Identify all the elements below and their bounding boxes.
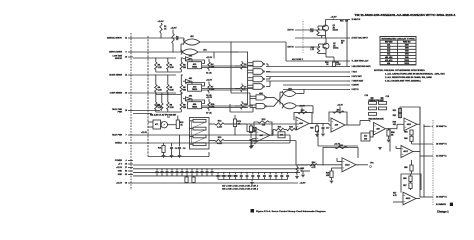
wire output	[356, 164, 368, 166]
wire	[250, 124, 252, 126]
wire	[160, 33, 162, 38]
wire	[371, 99, 373, 102]
resistor R1 1K pull-up	[160, 23, 162, 33]
wire SERVO DRIVE	[133, 51, 182, 53]
wire	[296, 127, 298, 130]
wire AT EXT OSC	[295, 37, 347, 39]
wire cap C20 lead	[201, 169, 203, 171]
wire	[177, 116, 179, 121]
wire	[432, 125, 434, 127]
wire	[269, 71, 271, 74]
ground	[295, 177, 299, 179]
wire	[148, 126, 153, 128]
svg-text:T DRIVE XMIT: T DRIVE XMIT	[352, 81, 365, 83]
wire	[309, 123, 314, 125]
svg-text:4A13: 4A13	[406, 197, 410, 200]
pin tick	[128, 51, 133, 53]
wire	[269, 77, 271, 80]
wire gate input	[248, 62, 253, 64]
svg-text:74123: 74123	[404, 62, 409, 65]
wire PWR	[133, 113, 152, 115]
wire base	[318, 25, 323, 27]
wire	[279, 92, 281, 104]
wire cap C19 lead	[229, 172, 231, 174]
wire ladder output A	[209, 123, 215, 125]
label R6	[183, 87, 186, 91]
capacitor C15	[381, 98, 384, 99]
ground	[170, 156, 174, 158]
pin tick	[128, 142, 133, 144]
wire	[208, 82, 210, 85]
wire	[325, 54, 327, 58]
junction	[247, 51, 248, 52]
wire	[148, 156, 209, 158]
pin tick	[128, 163, 133, 165]
table row 4B1, 4B2	[380, 56, 416, 59]
one-shot IC 4C2	[188, 84, 202, 91]
wire cap C25 lead	[263, 172, 265, 174]
input pin label MANUAL SERVO	[107, 37, 127, 40]
capacitor C19	[228, 175, 231, 176]
op-amp 4A8	[296, 117, 309, 130]
nand gate 4A3	[253, 76, 264, 82]
ground	[315, 135, 319, 137]
wire	[316, 132, 318, 134]
notes text	[374, 70, 446, 83]
wire	[250, 141, 252, 146]
resistor cluster R33	[369, 107, 377, 110]
ground floating	[378, 148, 382, 150]
pin tick	[347, 60, 350, 62]
svg-text:2.2K: 2.2K	[170, 107, 175, 109]
svg-text:GND: GND	[118, 174, 123, 176]
wire	[389, 146, 391, 152]
wire MODE SENSE	[133, 74, 176, 76]
wire cap C28 lead	[281, 172, 283, 174]
wire	[273, 129, 275, 131]
resistor R37	[370, 131, 373, 137]
wire	[411, 171, 413, 174]
label R5	[170, 87, 175, 91]
svg-text:ADJ CONF 1: ADJ CONF 1	[292, 58, 303, 61]
power pin label TACH PWR	[112, 134, 126, 137]
wire	[181, 92, 183, 94]
svg-text:C18 .1 C20 .1 C22 .1 C24: C18 .1 C20 .1 C22 .1 C24 .1 C26 .1 C28 .…	[222, 187, 258, 190]
wire	[156, 173, 158, 176]
svg-text:7402: 7402	[405, 50, 409, 53]
resistor R8	[167, 102, 169, 110]
nand gate 4A4-1	[256, 95, 266, 100]
label 4D1	[192, 103, 197, 109]
wire	[213, 52, 215, 58]
power bus wire	[133, 171, 300, 173]
label C10	[244, 104, 248, 108]
svg-text:4A4: 4A4	[387, 53, 390, 56]
wire	[229, 104, 231, 112]
wire	[317, 164, 342, 166]
input pin label TACH PWR	[112, 108, 127, 113]
wire	[180, 44, 182, 52]
wire	[386, 128, 397, 130]
wire	[411, 135, 413, 136]
wire cap C15 lead	[176, 169, 178, 171]
svg-text:R51: R51	[393, 110, 396, 112]
resistor R9	[180, 102, 182, 110]
wire	[190, 128, 194, 130]
ground	[330, 181, 334, 183]
op-amp 4A12	[401, 146, 413, 158]
svg-text:NOTES: UNLESS OTHERWISE SPEC: NOTES: UNLESS OTHERWISE SPECIFIED:	[374, 70, 426, 72]
wire	[321, 36, 323, 39]
wire	[167, 93, 169, 102]
resistor R34A	[333, 111, 344, 113]
wire	[191, 173, 193, 176]
label 4C1	[192, 63, 197, 69]
wire	[186, 173, 188, 176]
svg-text:MANUAL SERVO: MANUAL SERVO	[107, 37, 122, 40]
svg-text:2.2K: 2.2K	[170, 90, 175, 92]
ground	[250, 183, 254, 185]
label R7	[211, 87, 215, 91]
ground	[387, 140, 391, 142]
op-amp 4A7 feedback wire	[254, 122, 272, 135]
wire 20 MHZ	[326, 19, 348, 21]
capacitor C14	[371, 98, 374, 99]
svg-text:24 SHAFT B: 24 SHAFT B	[436, 196, 447, 199]
wire	[161, 93, 163, 103]
wire	[171, 173, 173, 176]
wire collector	[325, 20, 327, 26]
svg-text:SHIELD: SHIELD	[115, 143, 122, 145]
resistor R3	[180, 62, 182, 70]
svg-text:20 SHAFT A: 20 SHAFT A	[436, 125, 447, 128]
wire cap C23 lead	[252, 172, 254, 174]
resistor R7	[155, 102, 157, 110]
wire	[161, 173, 163, 176]
svg-text:R32: R32	[289, 126, 293, 128]
wire	[303, 90, 305, 94]
resistor R4	[155, 85, 157, 93]
bus vertical line	[147, 36, 149, 113]
resistor R10 10K	[208, 102, 210, 110]
wire	[190, 136, 192, 144]
resistor R33B	[315, 126, 318, 132]
svg-text:R25: R25	[218, 137, 222, 139]
wire	[272, 130, 274, 136]
wire	[416, 198, 420, 200]
wire stub	[231, 51, 238, 53]
label C7	[244, 87, 247, 91]
wire	[155, 58, 157, 62]
svg-text:C9: C9	[183, 148, 185, 150]
table column divider	[397, 40, 399, 65]
op-amp 4A10	[342, 158, 356, 172]
wire	[322, 129, 324, 133]
resistor R2 1K pull-up	[172, 34, 174, 44]
wire	[297, 105, 313, 107]
wire output T RCV	[266, 71, 347, 73]
wire	[181, 74, 183, 76]
capacitor C25	[263, 175, 266, 176]
wire cap C17 lead	[217, 172, 219, 174]
wire	[388, 136, 390, 139]
wire TACH PWR	[133, 110, 160, 112]
pin tick	[347, 19, 350, 21]
wire	[180, 70, 182, 73]
wire	[302, 171, 304, 174]
power pin label GND	[118, 174, 127, 176]
wire cap C20 lead	[234, 172, 236, 174]
resistor ladder outline	[190, 118, 210, 150]
svg-text:1. ALL CAPACITORS ARE IN MICRO: 1. ALL CAPACITORS ARE IN MICROFARADS, -1…	[385, 73, 446, 76]
nand gate 4A1	[253, 61, 264, 67]
wire	[410, 182, 412, 184]
IC table frame	[380, 37, 416, 66]
wire	[208, 109, 210, 111]
wire	[181, 43, 184, 45]
wire	[208, 69, 210, 71]
wire output	[424, 125, 431, 127]
ladder resistor R25	[193, 127, 206, 130]
label R8	[170, 105, 175, 109]
wire	[395, 146, 397, 149]
wire	[167, 110, 169, 113]
wire	[202, 107, 248, 109]
wire	[333, 66, 335, 68]
wire cap C19 lead	[196, 169, 198, 171]
label C4	[244, 63, 247, 68]
svg-text:4A7: 4A7	[260, 134, 263, 137]
wire	[251, 180, 253, 182]
wire gate input	[248, 72, 253, 74]
wire MANUAL SERVO	[133, 37, 184, 39]
wire cap C18 lead	[191, 169, 193, 171]
op-amp 4A13 feedback wire	[401, 174, 421, 193]
svg-text:27: 27	[125, 167, 127, 169]
svg-text:3. ALL DIODES ARE TYPE JAN1N91: 3. ALL DIODES ARE TYPE JAN1N914.	[385, 80, 422, 83]
wire	[287, 177, 289, 180]
pin tick	[128, 37, 133, 39]
svg-text:10: 10	[125, 57, 127, 59]
wire	[336, 158, 338, 162]
resistor R17 1.2K	[317, 28, 319, 36]
transformer T1 box	[153, 120, 161, 129]
wire	[246, 177, 248, 180]
wire	[411, 160, 413, 165]
capacitor C24	[257, 175, 260, 176]
wire	[224, 140, 296, 142]
wire	[388, 129, 390, 130]
svg-text:4Z1: 4Z1	[280, 135, 283, 137]
svg-text:R30: R30	[301, 110, 305, 112]
wire	[235, 88, 240, 90]
wire LOW TIME ERROR	[133, 57, 176, 59]
wire crossover	[267, 97, 283, 104]
wire	[252, 177, 254, 180]
wire box loop	[186, 100, 205, 104]
capacitor C10	[250, 140, 253, 141]
svg-text:T RCV: T RCV	[352, 72, 358, 74]
wire	[235, 105, 240, 107]
wire	[167, 75, 169, 85]
wire gate input	[248, 69, 253, 71]
capacitor C17	[322, 128, 325, 129]
ILLUMINATE black square	[450, 203, 453, 206]
svg-text:R29: R29	[262, 119, 266, 121]
svg-text:1.2K: 1.2K	[158, 90, 163, 92]
pin tick	[128, 167, 133, 169]
wire	[269, 177, 271, 180]
svg-text:4A2: 4A2	[387, 47, 390, 50]
wire	[269, 81, 271, 87]
wire	[208, 99, 210, 102]
svg-text:PWR: PWR	[118, 111, 123, 113]
wire	[316, 124, 318, 127]
wire	[191, 81, 193, 84]
wire	[413, 151, 420, 153]
svg-text:S DRIVE: S DRIVE	[352, 85, 360, 87]
input pin label SERVO DRIVE	[109, 52, 126, 54]
svg-text:74121: 74121	[192, 66, 197, 69]
capacitor C13	[166, 172, 169, 173]
svg-text:1-MILLISECOND GATE: 1-MILLISECOND GATE	[352, 65, 372, 68]
wire	[229, 177, 231, 180]
svg-text:+11.6V: +11.6V	[206, 80, 213, 82]
wire	[251, 139, 253, 145]
wire	[163, 143, 165, 146]
wire	[284, 129, 287, 131]
wire cap C18 lead	[223, 172, 225, 174]
resistor R32 10K	[287, 128, 296, 130]
wire	[163, 153, 165, 156]
resistor R6	[180, 85, 182, 93]
ladder resistor R27	[193, 143, 206, 146]
wire	[318, 35, 326, 37]
wire	[322, 124, 324, 127]
test point circle	[369, 165, 371, 167]
wire	[396, 124, 398, 128]
wire	[410, 174, 412, 176]
svg-text:4B1: 4B1	[190, 36, 193, 38]
wire	[190, 120, 194, 122]
wire	[166, 173, 168, 176]
capacitor C8	[170, 148, 173, 149]
op-amp 4A13	[403, 192, 416, 205]
resistor R21	[162, 146, 165, 153]
resistor R1	[155, 62, 157, 70]
wire	[180, 75, 182, 85]
wire output T DRIVE XMIT	[266, 80, 347, 82]
pin tick	[347, 71, 350, 73]
wire emitter	[325, 49, 327, 54]
wire cap C11 lead	[156, 169, 158, 171]
resistor R31 10K	[275, 128, 284, 130]
wire output S DRIVE	[283, 84, 347, 86]
wire	[180, 93, 182, 102]
wire crossover	[267, 95, 283, 106]
power bus wire	[133, 182, 298, 184]
table row 4A4	[380, 53, 416, 56]
resistor R4 10K	[208, 62, 210, 70]
wire cap C16 lead	[181, 169, 183, 171]
resistor cluster R35	[379, 107, 387, 110]
svg-text:Figure FO-4. Servo Control Gr: Figure FO-4. Servo Control Group Card Sc…	[256, 210, 327, 213]
svg-text:240: 240	[345, 21, 348, 23]
svg-text:TP3: TP3	[370, 163, 373, 165]
wire	[181, 173, 183, 176]
wire	[296, 164, 310, 166]
wire SHIELD	[133, 142, 290, 144]
wire	[249, 93, 251, 107]
resistor R39 100K	[335, 146, 347, 148]
svg-text:7400: 7400	[405, 47, 409, 50]
capacitor C26	[269, 175, 272, 176]
wire	[314, 123, 329, 125]
wire	[206, 173, 208, 176]
svg-text:C8: C8	[175, 148, 177, 150]
svg-text:4A8: 4A8	[299, 122, 302, 125]
pin tick	[347, 37, 350, 39]
wire	[230, 111, 253, 113]
svg-text:74121: 74121	[192, 106, 197, 109]
wire	[179, 149, 181, 155]
op-amp 4A11 feedback wire	[400, 107, 420, 124]
label R1	[158, 65, 163, 69]
capacitor C9	[178, 148, 181, 149]
svg-text:+11.6V: +11.6V	[141, 132, 148, 134]
svg-text:+11.5V: +11.5V	[116, 167, 123, 169]
resistor R53	[410, 130, 413, 135]
power bus wire	[133, 168, 303, 170]
wire	[224, 123, 247, 125]
wire	[193, 182, 195, 185]
wire	[161, 126, 162, 128]
capacitor C19	[196, 172, 199, 173]
svg-text:4A11: 4A11	[407, 123, 411, 126]
connector boundary dashed line	[130, 33, 132, 190]
svg-text:R57: R57	[403, 185, 406, 187]
label R9	[183, 105, 186, 109]
svg-text:4B2: 4B2	[288, 89, 291, 91]
caption black square	[251, 209, 255, 213]
svg-text:9: 9	[125, 52, 126, 54]
resistor cluster R33	[369, 113, 377, 116]
row ground rail	[156, 111, 182, 113]
svg-text:30: 30	[125, 171, 127, 173]
wire gate input	[248, 64, 253, 66]
wire cap C17 lead	[186, 169, 188, 171]
label R3	[183, 65, 186, 69]
power pin label +11.5V	[116, 183, 127, 185]
wire	[190, 135, 194, 137]
resistor R52	[398, 113, 401, 117]
wire	[168, 124, 177, 126]
supply stub +11.6V	[301, 108, 303, 114]
svg-text:R31: R31	[278, 126, 282, 128]
wire	[179, 135, 181, 147]
wire CONF SENSE	[133, 92, 176, 94]
svg-text:CONF SENSE: CONF SENSE	[110, 93, 123, 95]
wire	[171, 143, 173, 147]
wire	[202, 89, 248, 91]
wire output S RCV XMIT	[266, 76, 347, 78]
capacitor C21	[206, 172, 209, 173]
capacitor C21	[240, 175, 243, 176]
wire cap C21 lead	[206, 169, 208, 171]
wire	[176, 173, 178, 176]
svg-text:R52: R52	[393, 115, 396, 117]
svg-text:1M: 1M	[183, 90, 186, 92]
